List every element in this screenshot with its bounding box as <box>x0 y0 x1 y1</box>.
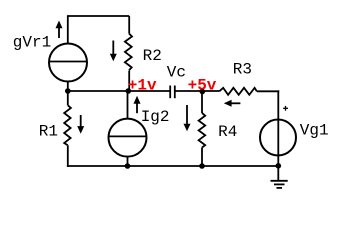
wire Ig2 top lead <box>127 91 129 119</box>
wire Vg1 top lead <box>277 90 279 120</box>
plus polarity mark of Vg1 <box>283 106 288 111</box>
ground <box>271 166 288 188</box>
svg-text:R1: R1 <box>39 122 58 140</box>
current-direction arrow of Ig2 <box>134 96 141 113</box>
node junction dot R4 bottom <box>199 163 205 169</box>
resistor R3 <box>219 88 279 95</box>
wire middle rail right of capacitor <box>175 90 220 92</box>
wire Ig2 bottom lead <box>127 157 129 167</box>
current-direction arrow of R2 <box>110 41 117 62</box>
svg-text:Ig2: Ig2 <box>141 108 170 126</box>
svg-text:R4: R4 <box>218 123 237 141</box>
svg-text:gVr1: gVr1 <box>13 33 51 51</box>
current-direction arrow of R3 <box>224 100 241 107</box>
wire gVr1 bottom lead <box>67 82 69 92</box>
resistor R2 <box>125 16 132 91</box>
capacitor Vc <box>170 86 175 99</box>
node junction dot left <box>65 88 71 94</box>
voltage source Vg1 <box>260 120 296 166</box>
svg-text:Vg1: Vg1 <box>300 121 329 139</box>
wire gVr1 top lead <box>67 15 69 43</box>
node +5v junction dot <box>200 89 206 95</box>
svg-text:R2: R2 <box>143 47 162 65</box>
wire bottom rail <box>67 165 278 167</box>
svg-text:Vc: Vc <box>167 63 186 81</box>
svg-text:+1v: +1v <box>128 77 157 95</box>
svg-text:R3: R3 <box>233 61 252 79</box>
resistor R4 <box>199 91 206 166</box>
current-direction arrow of R4 <box>184 105 191 131</box>
node junction dot Ig2 bottom <box>125 163 131 169</box>
wire middle rail left <box>68 90 170 92</box>
current source Ig2 <box>109 119 147 157</box>
node junction dot ground <box>276 163 282 169</box>
node +1v junction dot <box>126 88 132 94</box>
resistor R1 <box>64 91 71 167</box>
current-direction arrow of R1 <box>77 115 84 134</box>
wire top rail <box>68 15 129 17</box>
dependent current source gVr1 <box>49 44 87 82</box>
current-direction arrow of gVr1 <box>56 21 63 39</box>
